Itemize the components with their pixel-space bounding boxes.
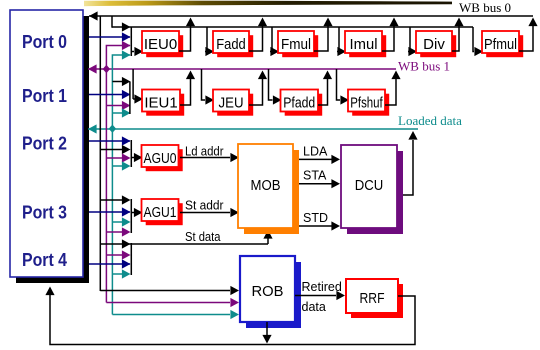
- label Port 1: [22, 86, 67, 106]
- svg-text:Port 4: Port 4: [22, 250, 67, 270]
- wire IEU1 input: [133, 94, 143, 103]
- wire St addr: [180, 208, 239, 217]
- block DCU: [341, 145, 403, 234]
- svg-text:Pfadd: Pfadd: [283, 95, 315, 112]
- svg-text:Retired: Retired: [302, 280, 342, 294]
- unit Div: [416, 31, 456, 57]
- unit IEU0: [142, 31, 183, 57]
- label Port 2: [22, 133, 67, 153]
- unit AGU1: [142, 199, 183, 225]
- label Port 3: [22, 203, 67, 223]
- svg-text:Port 2: Port 2: [22, 133, 67, 153]
- wire row4 teal feed: [112, 269, 130, 278]
- label LDA: [303, 145, 328, 159]
- svg-text:data: data: [302, 300, 326, 314]
- svg-text:Pfshuf: Pfshuf: [350, 95, 383, 112]
- svg-text:JEU: JEU: [219, 95, 244, 112]
- wire row0 teal feed: [122, 50, 131, 59]
- svg-text:STA: STA: [303, 169, 327, 183]
- svg-text:WB bus 0: WB bus 0: [459, 0, 511, 15]
- wire Retired data: [295, 291, 345, 300]
- wire AGU0 input: [131, 153, 142, 162]
- unit JEU: [213, 90, 253, 116]
- wire St data: [100, 230, 272, 244]
- unit Pfmul: [482, 31, 523, 57]
- label STA: [303, 169, 327, 183]
- junction loaded-data rail: [109, 125, 116, 133]
- svg-text:LDA: LDA: [303, 145, 328, 159]
- label Ld addr: [185, 145, 224, 159]
- svg-text:WB bus 1: WB bus 1: [398, 59, 450, 74]
- unit Imul: [345, 31, 386, 57]
- node row0 collector: [130, 27, 132, 56]
- wire row1 black feed: [112, 77, 130, 86]
- wire WB0 rail: [99, 16, 101, 291]
- wire row3 port3 issue: [89, 207, 131, 216]
- svg-text:Fadd: Fadd: [216, 36, 246, 53]
- node row4 collector: [130, 243, 132, 275]
- label St data: [185, 230, 221, 244]
- wire WB0 drop to row0: [111, 16, 113, 28]
- wire LDA: [299, 155, 340, 164]
- svg-text:MOB: MOB: [251, 177, 281, 194]
- svg-text:DCU: DCU: [355, 177, 384, 194]
- svg-text:Port 3: Port 3: [22, 203, 67, 223]
- wire row0 dispatch: [112, 26, 473, 28]
- wire RRF to ports: [45, 287, 415, 345]
- wire WB0 to ROB: [100, 286, 239, 295]
- node row2 collector: [130, 140, 132, 167]
- wire loaded-data rail: [112, 55, 130, 315]
- unit IEU1: [142, 90, 184, 116]
- label WB bus 0: [459, 0, 511, 15]
- wire WB bus 1: [88, 64, 396, 73]
- svg-text:ROB: ROB: [252, 283, 284, 300]
- wire row2 purple feed: [106, 153, 130, 162]
- svg-text:AGU1: AGU1: [144, 204, 177, 221]
- unit Pfshuf: [348, 90, 389, 116]
- svg-text:Port 0: Port 0: [22, 32, 67, 52]
- svg-text:STD: STD: [303, 211, 328, 225]
- block MOB: [238, 144, 299, 234]
- wire row1 writeback: [180, 71, 401, 106]
- svg-text:Imul: Imul: [350, 36, 378, 53]
- block RRF: [346, 279, 403, 318]
- wire row2 teal feed: [112, 161, 130, 170]
- junction WB1 rail: [103, 65, 110, 73]
- wire row1 teal feed: [112, 108, 130, 117]
- label Loaded data: [398, 113, 462, 128]
- wire row2 port2 issue: [89, 136, 131, 145]
- block ROB: [240, 256, 301, 328]
- svg-text:Ld addr: Ld addr: [185, 145, 224, 159]
- svg-text:Fmul: Fmul: [281, 36, 311, 53]
- unit Fadd: [213, 31, 253, 57]
- wire IEU0 input: [131, 47, 143, 56]
- svg-text:Loaded data: Loaded data: [398, 113, 462, 128]
- wire row0 purple feed: [122, 41, 131, 50]
- wire row0 black feed: [122, 22, 131, 31]
- wire row3 black feed: [100, 195, 130, 204]
- wire row1 purple feed: [106, 101, 130, 110]
- node row1 collector: [130, 69, 133, 114]
- wire STD: [299, 221, 340, 230]
- wire AGU1 input: [131, 208, 142, 217]
- wire ROB retire: [262, 322, 271, 344]
- svg-text:RRF: RRF: [360, 290, 385, 307]
- unit Pfadd: [281, 90, 323, 116]
- port block (Ports 0-4): [10, 10, 89, 283]
- label WB bus 1: [398, 59, 450, 74]
- wire row0 writeback: [179, 18, 538, 52]
- label Retired data: [302, 280, 342, 314]
- wire row2 black feed: [100, 145, 130, 154]
- wire row0 port0 issue: [89, 32, 131, 41]
- wire row1 unit input drops: [202, 69, 350, 105]
- wire row0 unit input drops: [205, 27, 483, 56]
- unit AGU0: [142, 145, 183, 171]
- svg-text:Div: Div: [423, 36, 445, 53]
- unit Fmul: [278, 31, 318, 57]
- wire WB1 rail: [106, 46, 130, 303]
- svg-text:AGU0: AGU0: [144, 150, 177, 167]
- node row3 collector: [130, 199, 132, 233]
- wire row4 purple feed: [106, 250, 130, 259]
- wire loaded-data to ROB: [112, 310, 239, 319]
- wire row4 black feed: [122, 239, 131, 248]
- wire Ld addr: [180, 153, 239, 162]
- wire WB1 to ROB: [106, 298, 239, 307]
- svg-text:Pfmul: Pfmul: [484, 36, 517, 53]
- svg-text:IEU1: IEU1: [144, 95, 177, 112]
- wire WB bus 0: [89, 11, 533, 20]
- wire Loaded data: [88, 124, 418, 133]
- label Port 4: [22, 250, 67, 270]
- svg-text:St data: St data: [185, 230, 221, 244]
- svg-text:IEU0: IEU0: [144, 36, 177, 53]
- wire row1 port1 issue: [89, 90, 131, 99]
- svg-text:Port 1: Port 1: [22, 86, 67, 106]
- svg-text:St addr: St addr: [185, 199, 224, 213]
- label STD: [303, 211, 328, 225]
- wire row3 teal feed: [112, 217, 130, 226]
- wire STA: [299, 179, 340, 188]
- wire row3 purple feed: [106, 227, 130, 236]
- wire row4 port4 issue: [89, 259, 131, 268]
- label Port 0: [22, 32, 67, 52]
- wire DCU loaded-data return: [403, 131, 418, 195]
- label St addr: [185, 199, 224, 213]
